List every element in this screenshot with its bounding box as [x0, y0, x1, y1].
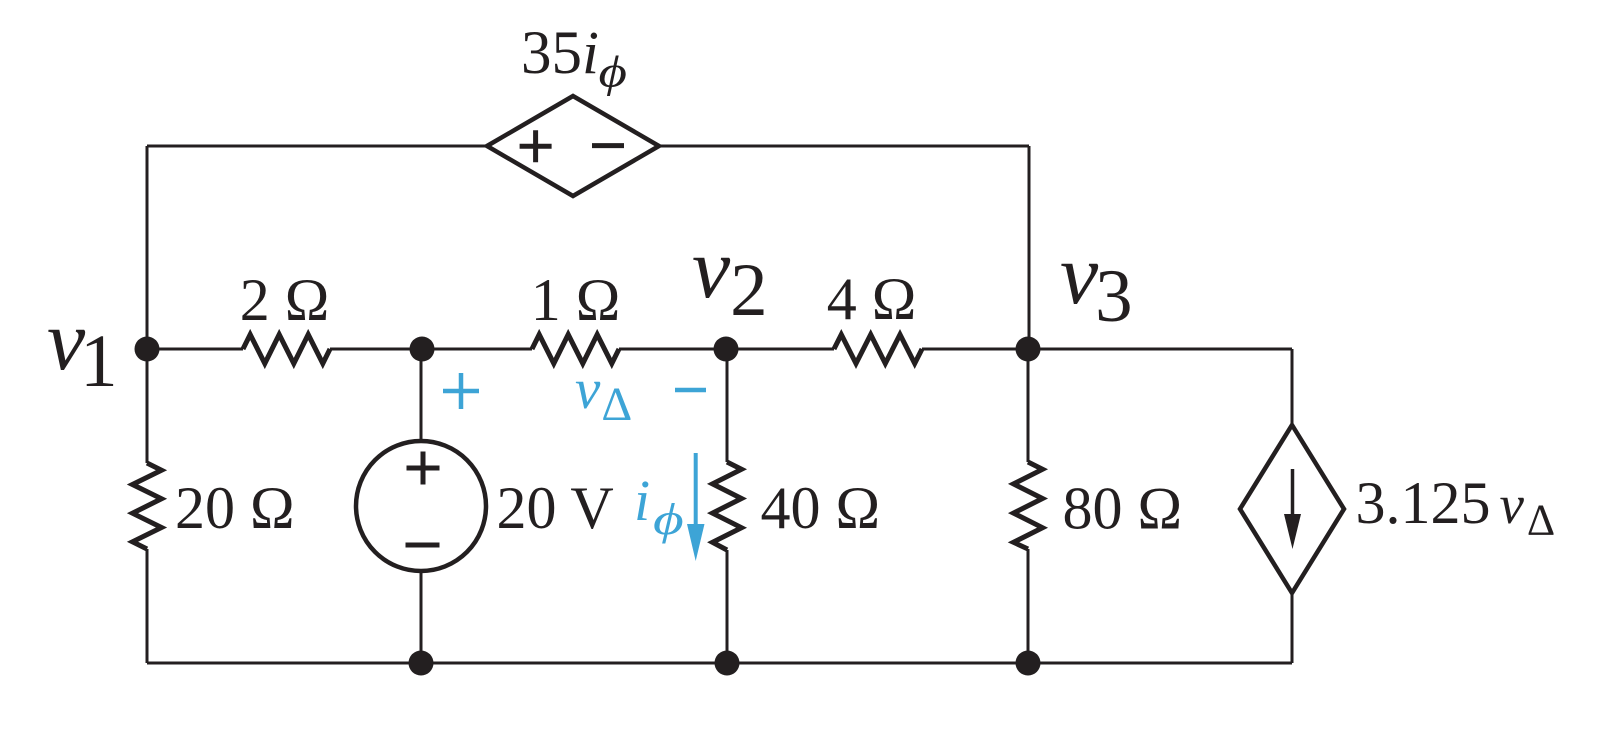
wire v3 down to 80 Ohm [1027, 349, 1030, 462]
wire 20V source to bottom [420, 571, 423, 663]
svg-text:i: i [634, 468, 650, 533]
resistor 80 Ohm zigzag [1014, 462, 1043, 549]
node v2 junction dot [714, 337, 739, 362]
bottom junction dot under 80 Ohm [1016, 651, 1041, 676]
wire 2 Ohm to middle node [330, 348, 532, 351]
wire top horizontal right [659, 145, 1029, 148]
minus sign inside circle [406, 543, 440, 548]
wire middle node to 1 Ohm [422, 348, 532, 351]
wire 1 Ohm to v2 [619, 348, 726, 351]
svg-text:1 Ω: 1 Ω [531, 267, 621, 333]
resistor 2 Ohm zigzag [243, 335, 330, 364]
bottom junction dot under 40 Ohm [715, 651, 740, 676]
node v3 junction dot [1016, 337, 1041, 362]
wire right vertical below current source [1291, 591, 1294, 663]
svg-text:vΔ: vΔ [575, 358, 632, 431]
resistor 40 Ohm zigzag [713, 462, 742, 550]
wire 80 Ohm to bottom [1027, 549, 1030, 663]
wire v2 to 4 Ohm [726, 348, 834, 351]
wire v3 to right corner [1029, 348, 1292, 351]
wire top-left vertical [146, 146, 149, 349]
node v1 junction dot [135, 337, 160, 362]
minus sign inside diamond [592, 143, 624, 148]
resistor 4 Ohm zigzag [834, 335, 922, 364]
wire bottom horizontal [147, 662, 1292, 665]
svg-text:4 Ω: 4 Ω [827, 266, 917, 332]
svg-text:ϕ: ϕ [599, 48, 627, 97]
cyan current arrow i_phi [694, 453, 698, 530]
svg-text:v3: v3 [1060, 226, 1133, 338]
svg-text:20 Ω: 20 Ω [175, 475, 295, 541]
cyan minus sign (v_delta polarity) [675, 388, 706, 393]
resistor 1 Ohm zigzag [532, 335, 619, 364]
wire 40 Ohm to bottom [726, 550, 729, 663]
wire right-top vertical to v3 [1028, 146, 1031, 349]
svg-text:35i: 35i [521, 20, 599, 87]
svg-text:3.125 vΔ: 3.125 vΔ [1356, 470, 1556, 545]
dependent current source 3.125 v_delta diamond [1240, 425, 1344, 593]
wire middle node down to 20V source [420, 349, 423, 441]
svg-text:v2: v2 [692, 220, 768, 332]
wire left vertical above 20 Ohm [146, 349, 149, 463]
svg-text:v1: v1 [47, 292, 118, 403]
svg-text:20 V: 20 V [497, 475, 614, 541]
svg-text:40 Ω: 40 Ω [761, 475, 881, 541]
middle node junction dot [410, 337, 435, 362]
wire right vertical above current source [1291, 349, 1294, 427]
voltage source 20 V circle [356, 441, 486, 571]
plus sign inside circle [407, 452, 440, 485]
wire v1 to 2 Ohm [147, 348, 243, 351]
svg-text:2 Ω: 2 Ω [240, 267, 330, 333]
wire 4 Ohm to v3 [922, 348, 1029, 351]
resistor 20 Ohm zigzag [133, 463, 162, 549]
plus sign inside diamond [520, 130, 552, 162]
dependent voltage source 35i_phi diamond [487, 96, 659, 196]
wire top horizontal left [147, 145, 488, 148]
bottom junction dot under source [409, 651, 434, 676]
cyan plus sign (v_delta polarity) [443, 373, 479, 409]
svg-text:80 Ω: 80 Ω [1063, 476, 1183, 542]
svg-text:ϕ: ϕ [653, 495, 684, 544]
arrow inside current source [1291, 469, 1295, 517]
wire v2 down to 40 Ohm [726, 349, 729, 462]
wire left vertical below 20 Ohm [146, 549, 149, 663]
